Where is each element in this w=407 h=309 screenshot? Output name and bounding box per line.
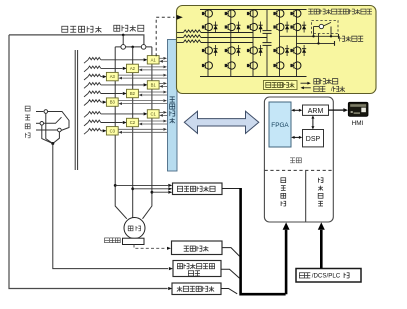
IGBT Q52 bbox=[290, 23, 301, 30]
dashed leader: cell A1 detail bbox=[155, 20, 157, 57]
link FPGA-DSP bbox=[293, 136, 302, 138]
power cell A2 bbox=[127, 64, 139, 72]
IGBT Q32 bbox=[247, 23, 258, 30]
svg-text:B2: B2 bbox=[130, 91, 136, 96]
wire: ARM to HMI bbox=[329, 109, 344, 111]
secondary winding 2 bbox=[84, 68, 88, 71]
IGBT Q21 bbox=[225, 10, 236, 17]
IGBT Q24 bbox=[225, 62, 236, 69]
fiber signal arrows bbox=[301, 82, 308, 84]
power cell B1 bbox=[147, 81, 159, 89]
fiber pair: cell C2 to fiber interface bbox=[138, 120, 163, 122]
node: delta junction bbox=[51, 142, 54, 145]
wire: delta tap down to input V/I sensor bbox=[53, 144, 168, 269]
arrow into output current sensor bbox=[168, 287, 172, 290]
terminal T2 on HV line 2 bbox=[36, 122, 40, 124]
svg-text:B3: B3 bbox=[110, 100, 116, 105]
node: connector circle 1 bbox=[121, 45, 126, 50]
DSP block bbox=[303, 130, 324, 147]
power cell A3 bbox=[106, 72, 118, 80]
wire: tap W to voltage sensor bbox=[152, 191, 168, 193]
secondary winding 6 bbox=[84, 102, 88, 105]
wire: phase bus W (right) bbox=[143, 47, 152, 219]
fiber pair: cell B2 to fiber interface bbox=[138, 91, 163, 93]
power cell B3 bbox=[106, 98, 118, 106]
label: unit output bbox=[339, 36, 344, 41]
wire: winding 6 to cell B3 bbox=[101, 101, 103, 103]
bridge leg 5 column bbox=[296, 10, 298, 77]
HMI display icon bbox=[348, 102, 368, 116]
node: connector circle 2 bbox=[141, 45, 146, 50]
secondary winding 4 bbox=[84, 85, 88, 88]
wire: output current sensor output join bbox=[221, 289, 237, 294]
dashed separator bbox=[265, 169, 334, 171]
bridge leg 1 column bbox=[207, 10, 209, 77]
cell input line S with choke bbox=[177, 37, 183, 39]
unit control board box bbox=[264, 81, 298, 90]
link ARM-DSP bbox=[312, 117, 314, 128]
link FPGA-ARM bbox=[293, 109, 302, 111]
node: tap V bbox=[131, 187, 134, 190]
power cell C2 bbox=[127, 118, 139, 126]
dash-dot: encoder to speed sensor bbox=[134, 245, 166, 249]
wire: speed sensor output join bbox=[222, 248, 240, 257]
DC bus rail (top) bbox=[200, 9, 307, 11]
wire: phase bus V (middle) bbox=[132, 47, 134, 218]
freewheel diode leg 3 at y27 bbox=[259, 22, 263, 33]
svg-text:C3: C3 bbox=[110, 128, 116, 133]
arrow into input V/I sensor bbox=[169, 267, 173, 270]
IGBT Q44 bbox=[273, 62, 284, 69]
svg-text:A3: A3 bbox=[110, 74, 116, 79]
wire: delta merge leg 3 bbox=[53, 132, 60, 144]
input V/I sensor box bbox=[173, 261, 221, 277]
transformer core bars bbox=[74, 50, 76, 170]
bidirectional fiber link arrow bbox=[184, 111, 258, 133]
wire: top horizontal bus bbox=[9, 35, 144, 45]
bridge leg 2 column bbox=[230, 10, 232, 77]
wire: delta merge leg 1 bbox=[46, 113, 53, 143]
speed sensor box bbox=[172, 241, 223, 255]
label: unit bypass contactor (optional) bbox=[308, 9, 313, 14]
interface divider bbox=[305, 171, 307, 222]
arrow: user box to controller bbox=[320, 230, 323, 268]
wire: voltage sensor output bbox=[222, 188, 240, 190]
fiber pair: cell B3 to fiber interface bbox=[118, 100, 163, 102]
cell output terminals bbox=[338, 34, 340, 39]
cell input line T with choke bbox=[177, 42, 183, 44]
label: encoder bbox=[105, 238, 110, 243]
IGBT Q34 bbox=[247, 62, 258, 69]
wire: winding 3 to cell A3 bbox=[101, 76, 103, 78]
thick feedback bus bbox=[239, 188, 242, 293]
label: power unit bbox=[114, 25, 120, 31]
fiber pair: cell A1 to fiber interface bbox=[159, 57, 163, 59]
IGBT Q14 bbox=[202, 62, 213, 69]
label: input/output bbox=[314, 86, 319, 91]
IGBT Q23 bbox=[225, 47, 236, 54]
IGBT Q13 bbox=[202, 47, 213, 54]
secondary winding 1 bbox=[84, 60, 88, 63]
fiber pair: cell A2 to fiber interface bbox=[138, 66, 163, 68]
IGBT Q43 bbox=[273, 47, 284, 54]
bypass contactor (dashed optional) bbox=[312, 21, 339, 34]
secondary winding 9 bbox=[84, 131, 88, 134]
secondary winding 3 bbox=[84, 77, 88, 80]
freewheel diode leg 3 at y50 bbox=[259, 45, 263, 56]
wire: tap V to voltage sensor bbox=[133, 188, 169, 190]
svg-text:A1: A1 bbox=[151, 57, 157, 62]
wire: winding 4 to cell B1 bbox=[101, 84, 144, 86]
user/DCS/PLC box bbox=[296, 269, 361, 283]
svg-text:C2: C2 bbox=[130, 120, 136, 125]
label: main control bbox=[290, 158, 295, 163]
IGBT Q41 bbox=[273, 10, 284, 17]
wire: winding 7 to cell C1 bbox=[101, 113, 144, 115]
freewheel diode leg 4 at y27 bbox=[285, 22, 289, 33]
IGBT Q54 bbox=[290, 62, 301, 69]
wire: phase bus header bbox=[115, 46, 152, 48]
output voltage sensor box bbox=[173, 183, 223, 195]
svg-text:DSP: DSP bbox=[306, 136, 321, 143]
IGBT Q53 bbox=[290, 47, 301, 54]
wire: HV phase 1 transposition bbox=[48, 112, 69, 131]
contactor contact bbox=[313, 27, 315, 37]
wire: cell output upper bbox=[280, 35, 339, 37]
node: tap U bbox=[114, 184, 117, 187]
IGBT Q11 bbox=[202, 10, 213, 17]
wire: HV phase 2 transposition bbox=[44, 117, 62, 123]
arrow into detail box bbox=[177, 15, 183, 20]
secondary winding 8 bbox=[84, 123, 88, 126]
fiber pair: cell C3 to fiber interface bbox=[118, 128, 163, 130]
freewheel diode leg 2 at y50 bbox=[236, 45, 240, 56]
label: HV input (vertical) bbox=[25, 106, 30, 111]
label: unit control board bbox=[266, 83, 271, 88]
power cell A1 bbox=[147, 56, 159, 64]
wire: winding 2 to cell A2 bbox=[101, 67, 123, 69]
label: system interface (vertical) bbox=[281, 178, 286, 183]
IGBT Q22 bbox=[225, 23, 236, 30]
fiber pair: cell A3 to fiber interface bbox=[118, 74, 163, 76]
output current sensor box bbox=[172, 283, 221, 295]
svg-text:A2: A2 bbox=[130, 66, 136, 71]
svg-text:FPGA: FPGA bbox=[271, 122, 289, 129]
label: isolation transformer bbox=[62, 26, 68, 32]
node: junction on top bus bbox=[122, 34, 125, 37]
svg-text:HMI: HMI bbox=[352, 120, 364, 127]
IGBT Q33 bbox=[247, 47, 258, 54]
power unit detail box bbox=[177, 6, 377, 94]
bridge leg 3 column bbox=[252, 10, 254, 77]
power cell B2 bbox=[127, 89, 139, 97]
power cell C1 bbox=[147, 110, 159, 118]
secondary winding 5 bbox=[84, 94, 88, 97]
fiber interface bar bbox=[168, 40, 178, 172]
freewheel diode leg 1 at y50 bbox=[214, 45, 218, 56]
svg-text:/DCS/PLC: /DCS/PLC bbox=[312, 273, 341, 280]
wire: input V/I sensor output join bbox=[221, 269, 240, 278]
secondary winding 7 bbox=[84, 114, 88, 117]
freewheel diode leg 4 at y50 bbox=[285, 45, 289, 56]
FPGA block bbox=[269, 102, 291, 147]
wire: tap U to voltage sensor bbox=[115, 184, 168, 186]
freewheel diode leg 5 at y27 bbox=[302, 22, 306, 33]
wire: delta merge leg 2 bbox=[42, 125, 53, 143]
freewheel diode leg 2 at y27 bbox=[236, 22, 240, 33]
wire: phase bus U (left) bbox=[115, 47, 127, 219]
wire: winding 1 to cell A1 bbox=[101, 59, 144, 61]
freewheel diode leg 5 at y50 bbox=[302, 45, 306, 56]
wire: stub from top bus to connector bbox=[122, 35, 124, 45]
wire: cell output lower bbox=[297, 42, 335, 44]
label: user interface (vertical) bbox=[318, 178, 323, 183]
wire: winding 5 to cell B2 bbox=[101, 93, 123, 95]
svg-text:ARM: ARM bbox=[308, 108, 324, 115]
feedback arrow into controller bbox=[285, 230, 288, 294]
IGBT Q12 bbox=[202, 23, 213, 30]
wire: winding 8 to cell C2 bbox=[101, 122, 123, 124]
ARM block bbox=[303, 105, 329, 115]
cell input line R with choke bbox=[177, 32, 183, 34]
svg-text:C1: C1 bbox=[151, 112, 157, 117]
motor bbox=[124, 218, 145, 239]
terminal T1 on HV line 1 bbox=[36, 111, 43, 113]
IGBT Q31 bbox=[247, 10, 258, 17]
power cell C3 bbox=[106, 127, 118, 135]
DC link capacitor stack bbox=[266, 10, 268, 31]
encoder box bbox=[123, 238, 145, 244]
main controller box bbox=[264, 97, 333, 222]
node: junction on phase header bbox=[131, 46, 134, 49]
bridge leg 4 column bbox=[279, 10, 281, 77]
svg-text:B1: B1 bbox=[151, 83, 157, 88]
terminal T3 on HV line 3 bbox=[36, 129, 57, 131]
node: output junctions bbox=[312, 35, 314, 37]
freewheel diode leg 1 at y27 bbox=[214, 22, 218, 33]
wire: winding 9 to cell C3 bbox=[101, 130, 103, 132]
label: fiber signal bbox=[314, 79, 319, 84]
wire: left outer feeder (top bus to output-current sensor) bbox=[9, 35, 168, 289]
DC bus rail (bottom) bbox=[200, 76, 307, 78]
IGBT Q42 bbox=[273, 23, 284, 30]
IGBT Q51 bbox=[290, 10, 301, 17]
fiber pair: cell C1 to fiber interface bbox=[159, 111, 163, 113]
node: tap W bbox=[151, 191, 154, 194]
label: fiber interface (vertical) bbox=[170, 97, 175, 102]
fiber pair: cell B1 to fiber interface bbox=[159, 82, 163, 84]
